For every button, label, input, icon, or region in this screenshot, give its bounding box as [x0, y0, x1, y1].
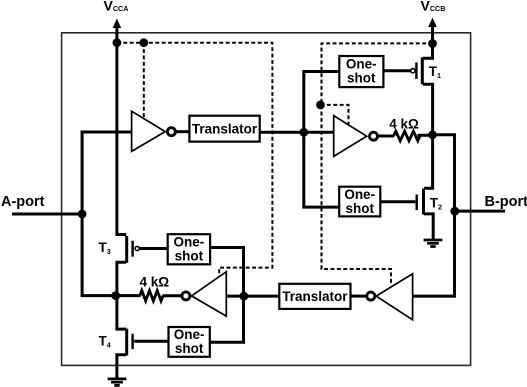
svg-text:One-: One-: [346, 57, 377, 72]
svg-text:4 kΩ: 4 kΩ: [389, 117, 419, 132]
svg-text:One-: One-: [174, 235, 205, 250]
svg-text:B-port: B-port: [485, 194, 527, 210]
svg-text:Translator: Translator: [282, 289, 348, 304]
svg-text:shot: shot: [175, 341, 204, 356]
svg-text:4 kΩ: 4 kΩ: [140, 274, 170, 289]
svg-text:Translator: Translator: [192, 122, 258, 137]
svg-text:One-: One-: [344, 187, 375, 202]
svg-text:shot: shot: [175, 249, 204, 264]
svg-text:VCCB: VCCB: [421, 0, 446, 13]
svg-text:T1: T1: [429, 64, 441, 80]
svg-text:VCCA: VCCA: [104, 0, 129, 13]
svg-text:T4: T4: [99, 334, 111, 350]
svg-text:shot: shot: [345, 201, 374, 216]
svg-text:shot: shot: [347, 71, 376, 86]
svg-text:T2: T2: [430, 196, 442, 212]
svg-text:T3: T3: [99, 240, 111, 256]
svg-text:One-: One-: [174, 327, 205, 342]
svg-text:A-port: A-port: [1, 194, 45, 210]
